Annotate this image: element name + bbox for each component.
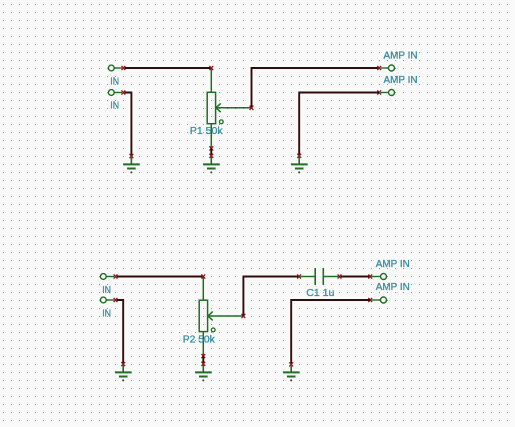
junction cross at bottom IN1 pin [114, 274, 118, 278]
svg-text:IN: IN [102, 308, 111, 320]
junction cross at AMP IN 2 pin [377, 90, 381, 94]
svg-text:IN: IN [102, 284, 111, 296]
wire IN1 to P2 top [117, 276, 204, 278]
junction cross at bottom center ground pin [201, 362, 205, 366]
wire P2 bottom to ground [202, 356, 204, 363]
junction cross at bottom AMP IN 1 pin [368, 274, 372, 278]
wire AMP IN 2 to bottom right ground [291, 300, 370, 364]
wire AMP IN 2 to right ground [299, 93, 379, 156]
connector pin IN (top circuit, input 1) [108, 65, 122, 71]
P1 origin circle [219, 120, 223, 124]
junction cross at IN1 pin [122, 66, 126, 70]
svg-text:AMP IN: AMP IN [384, 50, 418, 62]
connector pin IN (bottom circuit, input 1) [100, 274, 114, 280]
junction cross at P2 bottom pin [201, 354, 205, 358]
svg-text:IN: IN [110, 100, 119, 112]
junction cross at bottom IN2 pin [114, 298, 118, 302]
wire P1 bottom to ground [210, 148, 212, 155]
junction cross at bottom left ground pin [121, 362, 125, 366]
ground symbol (top right) [291, 156, 308, 173]
wire IN1 to P1 top [125, 67, 212, 69]
capacitor C1 [300, 268, 338, 285]
wire wiper to capacitor C1 [243, 277, 299, 316]
svg-text:AMP IN: AMP IN [376, 258, 410, 270]
svg-text:AMP IN: AMP IN [384, 74, 418, 86]
connector pin AMP IN (bottom circuit, output 1) [372, 274, 387, 280]
svg-text:P2 50k: P2 50k [183, 333, 216, 345]
junction cross at bottom AMP IN 2 pin [368, 298, 372, 302]
wire wiper to AMP IN 1 [252, 68, 380, 107]
svg-text:AMP IN: AMP IN [376, 281, 410, 293]
connector pin AMP IN (bottom circuit, output 2) [372, 297, 387, 303]
junction cross at P2 wiper net [242, 314, 246, 318]
connector pin AMP IN (top circuit, output 1) [381, 65, 395, 71]
ground symbol (top center, under P1) [203, 156, 220, 173]
ground symbol (bottom center, under P2) [195, 364, 212, 381]
junction cross at right ground pin [297, 154, 301, 158]
junction cross at center ground pin [209, 154, 213, 158]
junction cross at bottom right ground pin [289, 362, 293, 366]
svg-text:IN: IN [110, 75, 119, 87]
svg-text:C1 1u: C1 1u [306, 287, 334, 299]
P2 origin circle [211, 328, 215, 332]
junction cross at C1 right pin [338, 274, 342, 278]
svg-text:P1 50k: P1 50k [190, 125, 224, 137]
connector pin IN (top circuit, input 2) [108, 90, 122, 96]
junction cross at P2 top terminal [201, 274, 205, 278]
potentiometer P2 body [199, 277, 207, 355]
connector pin IN (bottom circuit, input 2) [100, 297, 114, 303]
junction cross at C1 left pin [297, 274, 301, 278]
junction cross at AMP IN 1 pin [377, 66, 381, 70]
ground symbol (bottom left) [115, 365, 132, 382]
potentiometer P1 body [207, 69, 215, 148]
junction cross at IN2 pin [122, 90, 126, 94]
junction cross at left ground pin [130, 154, 134, 158]
potentiometer P1 wiper arrow [216, 103, 252, 112]
junction cross at P1 top terminal [209, 66, 213, 70]
ground symbol (top left) [123, 157, 140, 174]
connector pin AMP IN (top circuit, output 2) [381, 90, 395, 96]
junction cross at P1 bottom pin [209, 146, 213, 150]
potentiometer P2 wiper arrow [208, 312, 243, 321]
wire IN2 to bottom left ground [117, 300, 124, 364]
junction cross at P1 wiper net [250, 106, 254, 110]
ground symbol (bottom right) [283, 365, 300, 382]
wire IN2 to left ground [125, 93, 132, 156]
wire C1 to AMP IN 1 [341, 276, 370, 278]
